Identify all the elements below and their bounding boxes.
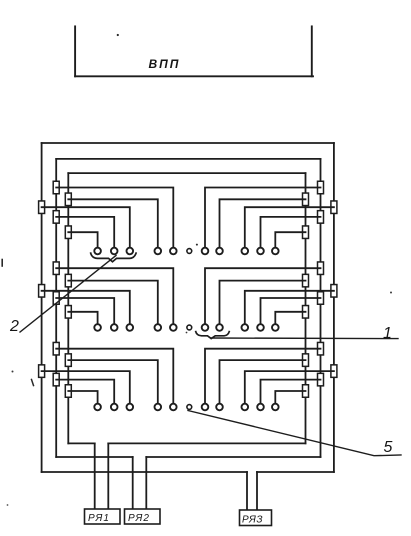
wire feeder row2 left f2 with drop: [68, 281, 158, 325]
wire lead RJa3 left: [246, 472, 248, 510]
lamp row2 right HL2R5: [272, 324, 279, 331]
lamp row3 right HL3R5: [272, 404, 279, 411]
fuse row2 left middle bus F2L4: [53, 292, 59, 305]
lamp row1 right HL1R5: [272, 248, 279, 255]
lamp row2 left HL2L3: [127, 324, 134, 331]
wire feeder row1 left f5 with drop: [68, 232, 97, 248]
wire outer border right bus: [333, 143, 335, 472]
wire feeder row2 left f3 with drop: [42, 291, 130, 325]
lamp row3 right HL3R2: [216, 404, 223, 411]
lamp row1 right HL1R2: [216, 248, 223, 255]
wire middle loop right bus: [320, 159, 322, 457]
fuse row1 right inner bus F1R5: [303, 226, 309, 239]
wire feeder row2 left f5 with drop: [68, 312, 97, 325]
fuse row2 right inner bus F2R2: [303, 274, 309, 287]
wire feeder row3 left f4 with drop: [56, 380, 114, 404]
wire lead RJa1 right: [107, 443, 109, 509]
node speck bottom left margin: [7, 504, 9, 506]
wire feeder row3 left f5 with drop: [68, 391, 97, 404]
node speck right margin: [390, 292, 392, 294]
node speck near left bus: [32, 380, 34, 386]
fuse row2 left outer bus F2L3: [39, 285, 45, 298]
lamp row1 small centre HL1C: [187, 249, 192, 254]
lamp row1 right HL1R4: [257, 248, 264, 255]
wire feeder row3 left f2 with drop: [68, 360, 158, 404]
fuse row3 left inner bus F3L5: [65, 385, 71, 398]
fuse row3 left middle bus F3L1: [53, 342, 59, 355]
wire middle loop left bus: [55, 159, 57, 457]
lamp row3 left HL3L3: [127, 404, 134, 411]
svg-text:РЯ1: РЯ1: [88, 513, 110, 524]
wire feeder row3 left f1 with drop: [56, 349, 173, 404]
leader line to callout 2: [20, 256, 116, 333]
svg-text:2: 2: [9, 318, 19, 335]
lamp row1 right HL1R3: [242, 248, 249, 255]
wire inner loop bottom right segment: [108, 442, 305, 444]
svg-text:1: 1: [383, 325, 392, 342]
node speck above row1 centre lamp: [196, 244, 198, 246]
distribution box RJa1: [85, 509, 121, 524]
runway symbol VPP left edge wire: [74, 26, 76, 76]
wire feeder row1 right f4 with drop: [261, 217, 321, 248]
fuse row2 right middle bus F2R1: [318, 262, 324, 275]
runway symbol VPP right edge wire: [311, 26, 313, 76]
fuse row3 left inner bus F3L2: [65, 354, 71, 367]
wire feeder row3 right f5 with drop: [275, 391, 305, 404]
lamp row2 small centre HL2C: [187, 325, 192, 330]
fuse row3 right middle bus F3R4: [318, 373, 324, 386]
wire outer border top: [42, 142, 334, 144]
lamp row3 small centre HL3C: [187, 405, 192, 410]
wire inner loop left bus: [67, 173, 69, 443]
wire feeder row1 left f1 with drop: [56, 188, 173, 248]
wire feeder row1 left f4 with drop: [56, 217, 114, 248]
wire feeder row3 left f3 with drop: [42, 371, 130, 404]
fuse row1 left middle bus F1L1: [53, 181, 59, 194]
lamp row1 right HL1R1: [202, 248, 209, 255]
bracket under row2 centre-right lamp pair: [196, 331, 230, 339]
lamp row3 right HL3R4: [257, 404, 264, 411]
wire feeder row3 right f3 with drop: [245, 371, 334, 404]
wire feeder row1 left f3 with drop: [42, 207, 130, 248]
fuse row3 left middle bus F3L4: [53, 373, 59, 386]
wire feeder row2 right f3 with drop: [245, 291, 334, 325]
svg-text:5: 5: [384, 439, 393, 456]
distribution box RJa2: [125, 509, 161, 524]
lamp row3 left HL3L5: [94, 404, 101, 411]
wire inner loop right bus: [305, 173, 307, 443]
wire feeder row2 left f1 with drop: [56, 268, 173, 324]
lamp row3 right HL3R3: [242, 404, 249, 411]
fuse row2 right inner bus F2R5: [303, 306, 309, 319]
wire lead RJa1 left: [94, 443, 96, 509]
fuse row2 left middle bus F2L1: [53, 262, 59, 275]
wire middle loop top: [56, 158, 320, 160]
node speck above runway symbol: [117, 34, 119, 36]
distribution box RJa3: [240, 510, 272, 526]
wire middle loop bottom right segment: [146, 456, 320, 458]
lamp row3 left HL3L2: [155, 404, 162, 411]
wire feeder row1 right f5 with drop: [275, 232, 305, 248]
wire inner loop top: [68, 172, 305, 174]
lamp row2 right HL2R2: [216, 324, 223, 331]
fuse row1 right inner bus F1R2: [303, 193, 309, 206]
fuse row3 left outer bus F3L3: [39, 365, 45, 378]
lamp row2 right HL2R3: [242, 324, 249, 331]
wire feeder row2 left f4 with drop: [56, 298, 114, 324]
fuse row3 right inner bus F3R5: [303, 385, 309, 398]
wire feeder row1 right f2 with drop: [220, 199, 306, 248]
lamp row2 right HL2R4: [257, 324, 264, 331]
wire feeder row2 right f2 with drop: [220, 281, 306, 325]
wire outer border bottom left segment: [42, 471, 247, 473]
lamp row1 left HL1L4: [111, 248, 118, 255]
fuse row1 left inner bus F1L5: [65, 226, 71, 239]
fuse row3 right middle bus F3R1: [318, 342, 324, 355]
lamp row2 right HL2R1: [202, 324, 209, 331]
wire feeder row3 right f1 with drop: [205, 349, 321, 404]
lamp row3 left HL3L4: [111, 404, 118, 411]
lamp row3 left HL3L1: [170, 404, 177, 411]
bracket under row1 left lamp group: [91, 252, 137, 261]
svg-text:ВПП: ВПП: [149, 57, 181, 71]
wire feeder row2 right f4 with drop: [261, 298, 321, 324]
wire lead RJa2 right: [145, 457, 147, 509]
wire outer border left bus: [41, 143, 43, 472]
wire feeder row2 right f1 with drop: [205, 268, 321, 324]
fuse row2 right middle bus F2R4: [318, 292, 324, 305]
node speck left margin tick: [1, 260, 3, 267]
wire lead RJa2 left: [132, 457, 134, 509]
fuse row2 left inner bus F2L5: [65, 306, 71, 319]
node speck centre gap: [186, 332, 188, 334]
wire inner loop bottom left segment: [68, 442, 94, 444]
wire feeder row2 right f5 with drop: [275, 312, 305, 325]
wire feeder row1 left f2 with drop: [68, 199, 158, 248]
fuse row2 left inner bus F2L2: [65, 274, 71, 287]
lamp row1 left HL1L3: [127, 248, 134, 255]
svg-text:РЯЗ: РЯЗ: [242, 515, 263, 526]
node speck dot left: [12, 371, 14, 373]
svg-text:РЯ2: РЯ2: [128, 513, 150, 524]
lamp row2 left HL2L2: [155, 324, 162, 331]
lamp row1 left HL1L1: [170, 248, 177, 255]
lamp row2 left HL2L4: [111, 324, 118, 331]
fuse row1 left outer bus F1L3: [39, 201, 45, 214]
lamp row2 left HL2L5: [94, 324, 101, 331]
fuse row1 right middle bus F1R1: [318, 181, 324, 194]
fuse row2 right outer bus F2R3: [331, 285, 337, 298]
lamp row1 left HL1L5: [94, 248, 101, 255]
leader line to callout 1: [211, 337, 398, 340]
fuse row1 left inner bus F1L2: [65, 193, 71, 206]
wire middle loop bottom left segment: [56, 456, 133, 458]
runway symbol VPP bottom wire: [75, 75, 313, 77]
fuse row1 right middle bus F1R4: [318, 211, 324, 224]
wire feeder row3 right f4 with drop: [261, 380, 321, 404]
lamp row1 left HL1L2: [155, 248, 162, 255]
lamp row2 left HL2L1: [170, 324, 177, 331]
wire feeder row1 right f3 with drop: [245, 207, 334, 248]
fuse row1 left middle bus F1L4: [53, 211, 59, 224]
fuse row3 right inner bus F3R2: [303, 354, 309, 367]
wire feeder row1 right f1 with drop: [205, 188, 321, 248]
wire lead RJa3 right: [256, 472, 258, 510]
wire outer border bottom right segment: [257, 471, 334, 473]
fuse row1 right outer bus F1R3: [331, 201, 337, 214]
leader line to callout 5: [188, 411, 401, 456]
lamp row3 right HL3R1: [202, 404, 209, 411]
fuse row3 right outer bus F3R3: [331, 365, 337, 378]
wire feeder row3 right f2 with drop: [220, 360, 306, 404]
